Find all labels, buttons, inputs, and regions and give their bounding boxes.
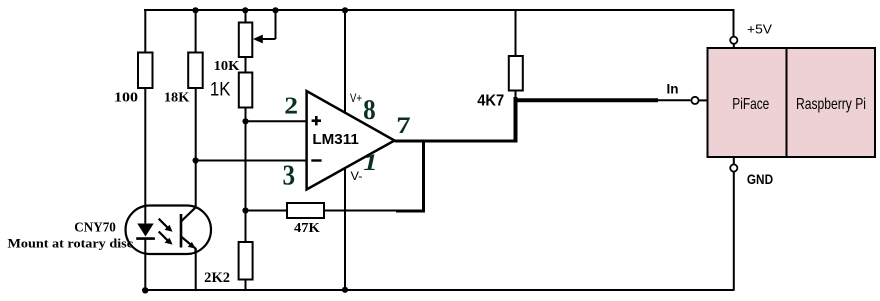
op-amp minus sign [311,159,321,161]
potentiometer 10K body [239,23,253,58]
phototransistor base bar [180,214,183,248]
wire 2K2 top lead [245,211,247,243]
wire box to GND terminal [733,157,735,165]
wire feedback vertical (thick) [422,141,425,211]
op-amp plus sign [312,119,321,122]
svg-text:1: 1 [363,150,377,176]
svg-text:4K7: 4K7 [477,93,504,110]
svg-text:V-: V- [351,171,363,183]
optocoupler CNY70 body [126,206,212,255]
svg-text:2: 2 [284,92,298,119]
emitter arrowhead [188,242,196,249]
svg-text:LM311: LM311 [312,132,358,148]
svg-text:1K: 1K [210,80,231,101]
light arrow 2 [159,232,168,241]
wire pin2 input [246,120,308,122]
wire feedback horizontal (thick) [396,210,425,213]
wire pin3 input [195,160,308,162]
wire 47K right lead [324,210,398,212]
phototransistor collector [181,206,196,222]
terminal +5V [730,37,737,44]
terminal GND [730,164,737,171]
light arrow 1 [159,219,168,228]
svg-text:+5V: +5V [747,23,773,37]
wire bottom rail [144,289,735,291]
wire 18K bottom to phototransistor collector [195,88,197,208]
svg-text:100: 100 [114,90,138,105]
resistor 2K2 [239,242,253,280]
wire top rail down to +5V [733,10,735,37]
svg-text:7: 7 [396,113,410,139]
wire In horizontal (thick) [516,98,659,102]
wire pot to 1K [245,57,247,73]
svg-text:PiFace: PiFace [732,96,769,113]
divider PiFace box [786,48,788,157]
LED D1 triangle [137,224,153,237]
node noninverting input junction [242,118,248,124]
svg-text:In: In [667,81,679,96]
wire phototransistor emitter to bottom rail [195,248,197,290]
node 47K / 2K2 junction [242,207,248,213]
node top rail / V+ junction [342,7,348,13]
svg-text:2K2: 2K2 [204,270,230,286]
wire +5V to box [733,44,735,49]
wire 47K left lead [246,210,288,212]
wire V- to bottom rail [344,168,346,291]
terminal In [691,97,698,104]
wire output node vertical (thick) [514,97,518,143]
wire GND to bottom rail [733,172,735,290]
node V- / bottom rail junction [342,287,348,293]
node top rail / wiper junction [272,7,278,13]
svg-text:47K: 47K [294,221,320,236]
node top rail / potentiometer junction [242,7,248,13]
wire 2K2 bottom lead [245,280,247,291]
wire 18K top lead [195,10,197,53]
block PiFace / Raspberry Pi [708,48,876,157]
resistor 1K [239,73,253,108]
wire output (thick) [395,140,518,143]
wire In terminal to PiFace [699,99,708,101]
wire V+ supply [344,10,346,113]
svg-text:CNY70: CNY70 [74,219,116,234]
wire 4K7 top lead [515,10,517,57]
node bottom-left junction [142,287,148,293]
LED cathode bar [136,237,155,240]
wire left vertical upper (to R 100) [144,10,146,53]
wire pot top lead [245,10,247,23]
op-amp U1 LM311 triangle [307,91,395,190]
svg-text:10K: 10K [214,58,240,73]
node top rail / 18K junction [192,7,198,13]
potentiometer wiper arrow [261,38,276,40]
resistor 100 [138,53,153,89]
svg-text:Mount at rotary disc: Mount at rotary disc [8,236,134,251]
svg-text:8: 8 [363,93,376,125]
wire 4K7 bottom lead [515,91,517,100]
svg-text:18K: 18K [164,89,190,104]
wire 100 to LED anode [144,88,146,224]
resistor 4K7 [509,56,523,91]
phototransistor emitter [181,237,196,255]
svg-text:Raspberry Pi: Raspberry Pi [796,96,866,113]
wire 1K bottom to node [245,108,247,123]
wire In thin segment [658,99,691,101]
resistor 18K [188,53,203,89]
svg-text:3: 3 [283,159,296,191]
wire wiper to top rail [275,10,277,39]
svg-text:GND: GND [747,172,773,187]
wire node down to 47K node [245,121,247,211]
resistor 47K [287,203,324,218]
wire top rail [144,9,735,11]
wire LED cathode to bottom rail [144,240,146,291]
svg-text:V+: V+ [350,93,362,105]
node inverting input junction [193,157,199,163]
